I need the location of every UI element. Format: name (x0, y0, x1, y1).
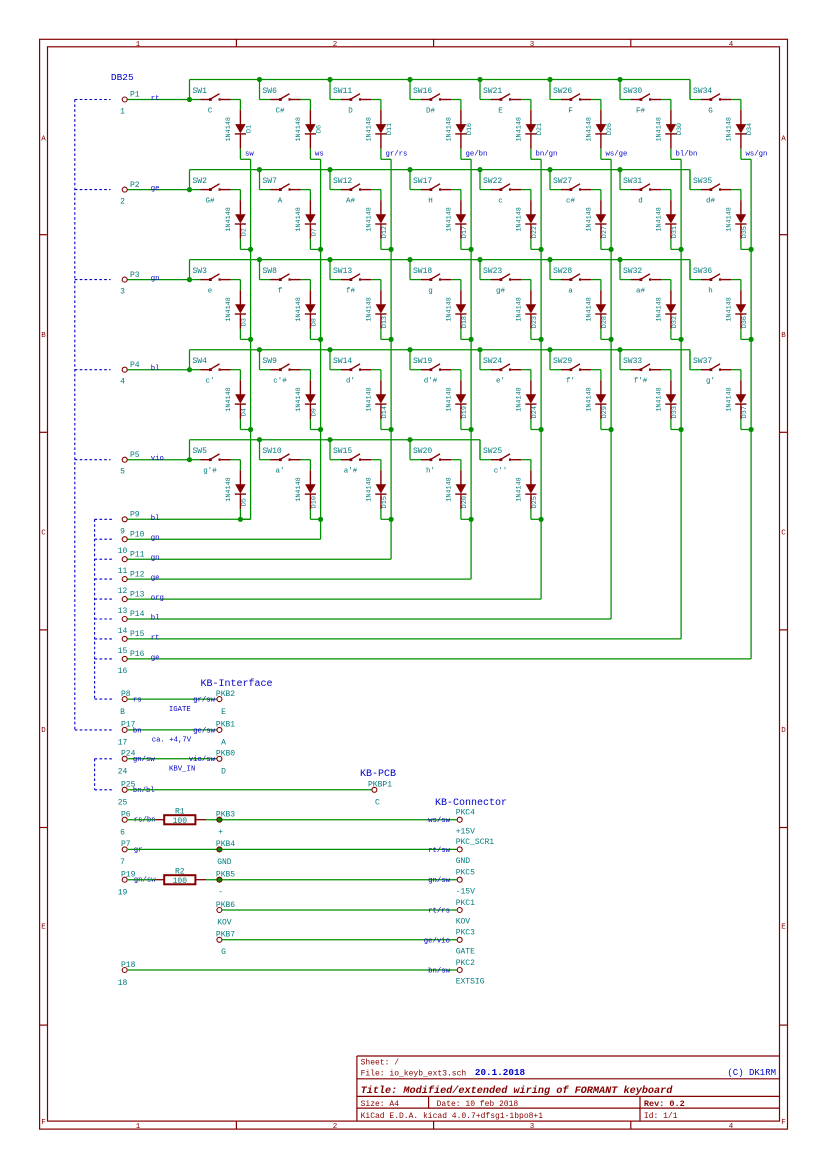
svg-text:17: 17 (118, 739, 128, 748)
svg-text:SW6: SW6 (263, 87, 278, 96)
svg-text:c': c' (205, 378, 214, 386)
svg-text:D37: D37 (741, 406, 749, 418)
svg-text:bl: bl (151, 515, 160, 523)
svg-text:D33: D33 (671, 406, 679, 418)
svg-text:ws/gn: ws/gn (746, 151, 768, 159)
svg-text:KOV: KOV (217, 918, 232, 927)
svg-text:a'#: a'# (344, 468, 358, 476)
svg-text:1N4148: 1N4148 (225, 297, 233, 321)
svg-text:g: g (428, 287, 433, 295)
svg-text:1N4148: 1N4148 (446, 387, 454, 411)
svg-text:vio: vio (151, 455, 164, 463)
svg-text:GND: GND (456, 857, 471, 866)
svg-text:F#: F# (636, 107, 646, 115)
svg-text:-: - (218, 888, 223, 897)
svg-text:4: 4 (729, 1123, 734, 1131)
svg-text:e': e' (496, 378, 505, 386)
svg-text:P2: P2 (130, 181, 140, 190)
svg-text:1N4148: 1N4148 (586, 387, 594, 411)
svg-text:D2: D2 (240, 228, 248, 236)
svg-text:ge: ge (151, 185, 160, 193)
svg-text:PKB5: PKB5 (216, 871, 235, 880)
svg-text:1N4148: 1N4148 (656, 207, 664, 231)
svg-text:D27: D27 (601, 226, 609, 238)
svg-text:e: e (208, 287, 213, 295)
svg-text:E: E (221, 708, 226, 717)
svg-text:D9: D9 (310, 408, 318, 416)
svg-text:gn/sw: gn/sw (428, 877, 451, 885)
svg-text:19: 19 (118, 889, 128, 898)
svg-text:5: 5 (120, 468, 125, 477)
svg-text:bl/bn: bl/bn (676, 151, 698, 159)
svg-text:c: c (498, 197, 503, 205)
svg-text:SW28: SW28 (553, 267, 572, 276)
svg-text:bn/sw: bn/sw (428, 968, 451, 976)
svg-text:ge: ge (151, 654, 160, 662)
svg-text:1: 1 (136, 1123, 141, 1131)
svg-text:SW5: SW5 (193, 447, 208, 456)
svg-text:-15V: -15V (456, 887, 475, 896)
svg-text:D23: D23 (531, 316, 539, 328)
svg-text:1N4148: 1N4148 (295, 387, 303, 411)
svg-text:F: F (781, 1119, 786, 1127)
svg-text:3: 3 (530, 1123, 535, 1131)
svg-text:gr/rs: gr/rs (386, 151, 408, 159)
svg-text:D20: D20 (461, 496, 469, 508)
svg-text:PKC4: PKC4 (456, 809, 475, 818)
svg-text:A#: A# (346, 197, 356, 205)
svg-text:PKB2: PKB2 (216, 690, 235, 699)
svg-text:SW34: SW34 (693, 87, 712, 96)
svg-text:bn/gn: bn/gn (536, 151, 558, 159)
svg-text:2: 2 (333, 1123, 338, 1131)
svg-text:D35: D35 (741, 226, 749, 238)
svg-text:SW25: SW25 (483, 447, 502, 456)
svg-text:16: 16 (118, 667, 128, 676)
svg-text:E: E (781, 924, 786, 932)
svg-text:B: B (41, 332, 46, 340)
svg-text:rt/sw: rt/sw (428, 847, 451, 855)
svg-text:A: A (221, 739, 226, 748)
svg-text:vio/sw: vio/sw (189, 756, 216, 764)
svg-text:+15V: +15V (456, 827, 475, 836)
svg-text:D34: D34 (746, 123, 754, 135)
svg-text:PKC2: PKC2 (456, 959, 475, 968)
svg-text:DB25: DB25 (111, 72, 134, 83)
svg-text:P6: P6 (121, 811, 131, 820)
svg-text:gn: gn (151, 275, 160, 283)
svg-text:1N4148: 1N4148 (656, 297, 664, 321)
svg-text:SW3: SW3 (193, 267, 208, 276)
svg-text:PKB1: PKB1 (216, 721, 235, 730)
svg-text:SW32: SW32 (623, 267, 642, 276)
svg-text:c'': c'' (494, 468, 508, 476)
svg-text:P14: P14 (130, 610, 145, 619)
svg-text:+: + (218, 828, 223, 837)
svg-text:B: B (781, 332, 786, 340)
svg-text:rs: rs (133, 697, 142, 705)
svg-text:SW27: SW27 (553, 177, 572, 186)
svg-text:KiCad E.D.A. kicad 4.0.7+dfsg: KiCad E.D.A. kicad 4.0.7+dfsg1-1bpo8+1 (361, 1112, 544, 1121)
svg-text:D32: D32 (671, 316, 679, 328)
svg-text:D: D (221, 768, 226, 777)
svg-text:C: C (208, 107, 213, 115)
svg-text:1N4148: 1N4148 (516, 117, 524, 141)
svg-text:g': g' (706, 378, 715, 386)
svg-text:18: 18 (118, 979, 128, 988)
svg-text:ge/bn: ge/bn (466, 151, 488, 159)
svg-text:1N4148: 1N4148 (366, 117, 374, 141)
svg-text:Id: 1/1: Id: 1/1 (644, 1112, 678, 1121)
svg-text:SW14: SW14 (333, 357, 352, 366)
svg-text:1N4148: 1N4148 (295, 477, 303, 501)
svg-text:P13: P13 (130, 590, 145, 599)
svg-text:1N4148: 1N4148 (366, 297, 374, 321)
svg-text:1N4148: 1N4148 (516, 477, 524, 501)
svg-text:Rev: 0.2: Rev: 0.2 (644, 1099, 685, 1109)
svg-text:1N4148: 1N4148 (656, 387, 664, 411)
svg-text:c'#: c'# (273, 378, 287, 386)
svg-text:D25: D25 (531, 496, 539, 508)
svg-text:D#: D# (426, 107, 436, 115)
svg-text:1N4148: 1N4148 (586, 207, 594, 231)
svg-text:1N4148: 1N4148 (446, 477, 454, 501)
svg-text:6: 6 (120, 829, 125, 838)
svg-text:D1: D1 (245, 125, 253, 133)
svg-text:d#: d# (706, 197, 716, 205)
svg-text:Size: A4: Size: A4 (361, 1100, 400, 1109)
svg-text:SW30: SW30 (623, 87, 642, 96)
svg-text:D26: D26 (606, 123, 614, 135)
svg-text:1N4148: 1N4148 (295, 297, 303, 321)
svg-text:SW12: SW12 (333, 177, 352, 186)
svg-text:D36: D36 (741, 316, 749, 328)
svg-text:PKB3: PKB3 (216, 811, 235, 820)
svg-text:a: a (568, 287, 573, 295)
svg-text:D4: D4 (240, 408, 248, 416)
svg-text:PKB6: PKB6 (216, 901, 235, 910)
svg-text:P7: P7 (121, 840, 131, 849)
svg-text:SW37: SW37 (693, 357, 712, 366)
svg-text:P12: P12 (130, 570, 145, 579)
svg-text:D8: D8 (310, 318, 318, 326)
svg-text:1N4148: 1N4148 (225, 477, 233, 501)
svg-text:F: F (41, 1119, 46, 1127)
svg-text:D14: D14 (381, 406, 389, 418)
svg-text:PKC3: PKC3 (456, 929, 475, 938)
svg-text:D12: D12 (381, 226, 389, 238)
svg-text:15: 15 (118, 647, 128, 656)
svg-text:D10: D10 (310, 496, 318, 508)
svg-text:1N4148: 1N4148 (225, 387, 233, 411)
svg-text:D13: D13 (381, 316, 389, 328)
svg-text:F: F (568, 107, 573, 115)
svg-text:1N4148: 1N4148 (366, 387, 374, 411)
svg-text:bn: bn (133, 727, 142, 735)
svg-text:SW29: SW29 (553, 357, 572, 366)
svg-text:P9: P9 (130, 511, 140, 520)
svg-text:14: 14 (118, 627, 128, 636)
svg-text:1N4148: 1N4148 (295, 117, 303, 141)
svg-text:SW11: SW11 (333, 87, 352, 96)
svg-text:SW24: SW24 (483, 357, 502, 366)
svg-text:P1: P1 (130, 91, 140, 100)
svg-text:1N4148: 1N4148 (446, 207, 454, 231)
svg-text:KOV: KOV (456, 918, 471, 927)
svg-text:1N4148: 1N4148 (726, 297, 734, 321)
svg-text:SW4: SW4 (193, 357, 208, 366)
svg-text:ge: ge (151, 575, 160, 583)
svg-text:PKC5: PKC5 (456, 869, 475, 878)
svg-text:rs/bn: rs/bn (134, 817, 156, 825)
svg-text:20.1.2018: 20.1.2018 (475, 1067, 526, 1078)
svg-text:SW16: SW16 (413, 87, 432, 96)
svg-text:D21: D21 (536, 123, 544, 135)
svg-text:1N4148: 1N4148 (516, 387, 524, 411)
svg-text:Date: 10 feb 2018: Date: 10 feb 2018 (437, 1100, 519, 1109)
svg-text:H: H (428, 197, 433, 205)
svg-text:7: 7 (120, 858, 125, 867)
svg-text:24: 24 (118, 768, 128, 777)
svg-text:SW19: SW19 (413, 357, 432, 366)
svg-text:f#: f# (346, 287, 356, 295)
svg-text:1N4148: 1N4148 (656, 117, 664, 141)
svg-text:bn/bl: bn/bl (133, 787, 155, 795)
svg-text:C: C (375, 798, 380, 807)
svg-text:D16: D16 (466, 123, 474, 135)
svg-text:c#: c# (566, 197, 576, 205)
svg-text:ws/sw: ws/sw (428, 817, 451, 825)
svg-text:G: G (221, 948, 226, 957)
svg-text:rt: rt (151, 634, 160, 642)
svg-text:ca. +4,7V: ca. +4,7V (152, 737, 192, 745)
svg-text:(C) DK1RM: (C) DK1RM (727, 1068, 776, 1078)
svg-text:gn: gn (151, 535, 160, 543)
svg-text:P16: P16 (130, 650, 145, 659)
svg-text:D31: D31 (671, 226, 679, 238)
svg-text:D30: D30 (676, 123, 684, 135)
svg-text:D28: D28 (601, 316, 609, 328)
svg-text:1N4148: 1N4148 (225, 117, 233, 141)
svg-text:Sheet: /: Sheet: / (361, 1059, 400, 1068)
svg-text:3: 3 (530, 41, 535, 49)
svg-text:P18: P18 (121, 961, 136, 970)
svg-text:SW18: SW18 (413, 267, 432, 276)
svg-text:gn/sw: gn/sw (134, 877, 157, 885)
svg-text:PKB4: PKB4 (216, 840, 235, 849)
svg-text:D: D (41, 727, 46, 735)
svg-text:PKBP1: PKBP1 (368, 780, 392, 789)
svg-text:1N4148: 1N4148 (295, 207, 303, 231)
svg-text:4: 4 (729, 41, 734, 49)
svg-text:C: C (41, 529, 46, 537)
svg-text:P3: P3 (130, 271, 140, 280)
svg-text:9: 9 (120, 527, 125, 536)
svg-text:1N4148: 1N4148 (446, 117, 454, 141)
svg-text:B: B (120, 708, 125, 717)
svg-text:D3: D3 (240, 318, 248, 326)
svg-text:E: E (498, 107, 503, 115)
svg-text:PKB7: PKB7 (216, 931, 235, 940)
svg-text:g#: g# (496, 287, 506, 295)
svg-text:h: h (708, 287, 713, 295)
svg-text:G: G (708, 107, 713, 115)
svg-text:sw: sw (245, 151, 254, 159)
svg-text:gr: gr (134, 846, 143, 854)
svg-text:100: 100 (173, 817, 188, 826)
svg-text:org: org (151, 595, 164, 603)
svg-text:a#: a# (636, 287, 646, 295)
svg-text:f: f (278, 287, 283, 295)
svg-text:KBV_IN: KBV_IN (169, 766, 195, 774)
svg-text:SW21: SW21 (483, 87, 502, 96)
svg-text:KB-Connector: KB-Connector (435, 798, 507, 809)
svg-text:gn/sw: gn/sw (133, 756, 156, 764)
svg-text:SW35: SW35 (693, 177, 712, 186)
svg-text:P4: P4 (130, 361, 140, 370)
svg-text:PKB0: PKB0 (216, 750, 235, 759)
svg-text:gn: gn (151, 555, 160, 563)
svg-text:KB-Interface: KB-Interface (201, 678, 273, 690)
svg-text:SW2: SW2 (193, 177, 208, 186)
svg-text:1N4148: 1N4148 (446, 297, 454, 321)
svg-text:rt: rt (151, 95, 160, 103)
svg-text:R2: R2 (175, 868, 185, 877)
svg-text:SW36: SW36 (693, 267, 712, 276)
svg-text:D: D (781, 727, 786, 735)
svg-text:IGATE: IGATE (169, 706, 191, 714)
svg-text:1: 1 (136, 41, 141, 49)
svg-text:100: 100 (173, 877, 188, 886)
svg-text:SW22: SW22 (483, 177, 502, 186)
svg-text:11: 11 (118, 567, 128, 576)
svg-text:P15: P15 (130, 630, 145, 639)
svg-text:SW10: SW10 (263, 447, 282, 456)
svg-text:D24: D24 (531, 406, 539, 418)
svg-text:1N4148: 1N4148 (726, 387, 734, 411)
svg-text:P8: P8 (121, 690, 131, 699)
svg-text:4: 4 (120, 378, 125, 387)
svg-text:SW1: SW1 (193, 87, 208, 96)
svg-text:C: C (781, 529, 786, 537)
svg-text:KB-PCB: KB-PCB (360, 769, 396, 780)
svg-text:File: io_keyb_ext3.sch: File: io_keyb_ext3.sch (361, 1070, 467, 1079)
svg-text:rt/rs: rt/rs (428, 908, 450, 916)
svg-text:10: 10 (118, 547, 128, 556)
svg-text:ge/vio: ge/vio (424, 937, 450, 945)
svg-text:SW33: SW33 (623, 357, 642, 366)
svg-text:SW26: SW26 (553, 87, 572, 96)
svg-text:f'#: f'# (634, 378, 648, 386)
svg-text:A: A (781, 135, 786, 143)
svg-text:1N4148: 1N4148 (225, 207, 233, 231)
svg-text:D15: D15 (381, 496, 389, 508)
svg-text:D18: D18 (461, 316, 469, 328)
svg-text:h': h' (426, 468, 435, 476)
svg-text:SW8: SW8 (263, 267, 278, 276)
svg-text:1N4148: 1N4148 (586, 117, 594, 141)
svg-text:PKC_SCR1: PKC_SCR1 (456, 838, 495, 847)
svg-text:f': f' (566, 378, 575, 386)
svg-text:12: 12 (118, 587, 128, 596)
svg-text:D19: D19 (461, 406, 469, 418)
svg-text:G#: G# (205, 197, 215, 205)
svg-text:1N4148: 1N4148 (516, 207, 524, 231)
svg-text:SW20: SW20 (413, 447, 432, 456)
svg-text:1N4148: 1N4148 (366, 477, 374, 501)
svg-text:D11: D11 (386, 123, 394, 135)
svg-text:1N4148: 1N4148 (586, 297, 594, 321)
svg-text:Title: Modified/extended wirin: Title: Modified/extended wiring of FORMA… (361, 1085, 674, 1097)
svg-text:bl: bl (151, 365, 160, 373)
svg-text:EXTSIG: EXTSIG (456, 978, 485, 987)
svg-text:D22: D22 (531, 226, 539, 238)
svg-text:SW9: SW9 (263, 357, 278, 366)
svg-text:SW17: SW17 (413, 177, 432, 186)
svg-text:1N4148: 1N4148 (726, 117, 734, 141)
svg-text:1: 1 (120, 108, 125, 117)
svg-text:ws: ws (315, 151, 324, 159)
svg-text:R1: R1 (175, 808, 185, 817)
svg-text:bl: bl (151, 615, 160, 623)
svg-text:d'#: d'# (424, 378, 438, 386)
svg-text:SW23: SW23 (483, 267, 502, 276)
svg-text:g'#: g'# (203, 468, 217, 476)
svg-text:SW7: SW7 (263, 177, 278, 186)
svg-text:ws/ge: ws/ge (606, 151, 628, 159)
svg-text:GATE: GATE (456, 947, 475, 956)
svg-text:D: D (348, 107, 353, 115)
svg-text:D5: D5 (240, 498, 248, 506)
svg-text:2: 2 (333, 41, 338, 49)
svg-text:P5: P5 (130, 451, 140, 460)
svg-text:ge/sw: ge/sw (193, 727, 216, 735)
svg-text:2: 2 (120, 198, 125, 207)
svg-text:1N4148: 1N4148 (726, 207, 734, 231)
svg-text:1N4148: 1N4148 (366, 207, 374, 231)
svg-text:25: 25 (118, 799, 128, 808)
svg-text:D17: D17 (461, 226, 469, 238)
svg-text:gr/sw: gr/sw (193, 697, 216, 705)
svg-text:P10: P10 (130, 530, 145, 539)
svg-text:3: 3 (120, 288, 125, 297)
svg-text:E: E (41, 924, 46, 932)
svg-text:SW13: SW13 (333, 267, 352, 276)
svg-text:d: d (638, 197, 643, 205)
svg-text:A: A (41, 135, 46, 143)
svg-text:PKC1: PKC1 (456, 899, 475, 908)
svg-text:C#: C# (275, 107, 285, 115)
svg-text:P11: P11 (130, 550, 145, 559)
svg-text:A: A (278, 197, 283, 205)
svg-text:1N4148: 1N4148 (516, 297, 524, 321)
svg-text:13: 13 (118, 607, 128, 616)
svg-text:d': d' (346, 378, 355, 386)
svg-text:SW15: SW15 (333, 447, 352, 456)
svg-text:D6: D6 (315, 125, 323, 133)
svg-text:GND: GND (217, 858, 232, 867)
svg-text:SW31: SW31 (623, 177, 642, 186)
svg-text:D7: D7 (310, 228, 318, 236)
svg-text:D29: D29 (601, 406, 609, 418)
svg-text:a': a' (275, 468, 284, 476)
